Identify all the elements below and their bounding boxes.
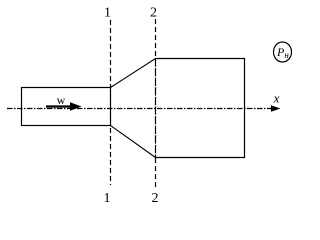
svg-text:1: 1: [104, 6, 111, 21]
svg-text:2: 2: [150, 6, 157, 21]
svg-text:x: x: [273, 91, 280, 106]
svg-text:2: 2: [152, 191, 159, 206]
svg-text:1: 1: [104, 191, 111, 206]
svg-text:Pн: Pн: [276, 45, 289, 60]
svg-text:w: w: [57, 93, 66, 107]
